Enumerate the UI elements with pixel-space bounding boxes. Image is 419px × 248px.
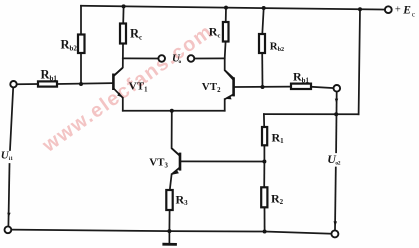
wire Uo right segment: [194, 57, 224, 59]
wire left input vertical lower: [8, 164, 9, 226]
resistor Rb2 left body: [78, 35, 85, 54]
wire left Rb2 branch vertical top: [80, 6, 82, 35]
wire VT1 emitter down: [122, 98, 124, 111]
wire bottom ground rail: [11, 230, 331, 234]
wire R1 bottom to divider node: [263, 145, 265, 161]
terminal Uo2 top: [334, 85, 341, 92]
resistor Rc2 body: [223, 22, 229, 42]
terminal Uo2 bottom: [331, 230, 338, 237]
wire Rc2 bottom to VT2 collector: [225, 42, 233, 78]
resistor Rb1 right body: [291, 84, 311, 89]
resistor R2 body: [261, 187, 267, 207]
terminal input top left: [10, 81, 16, 87]
terminal Uo left: [158, 55, 165, 62]
node ground rail at R3: [167, 229, 171, 233]
arrow input wire down: [7, 213, 10, 218]
wire right Rb2 branch from rail: [262, 8, 263, 34]
wire top supply rail: [81, 6, 388, 10]
node top rail at Rc1: [122, 4, 126, 8]
wire VT3 emitter down to R3: [170, 174, 172, 190]
node ground rail at R2: [263, 230, 267, 234]
node top rail at right Rb2: [262, 6, 266, 10]
resistor Rc1 body: [120, 24, 126, 44]
node emitter rail to VT3: [170, 109, 174, 113]
wire VT3 collector from emitter rail: [172, 111, 180, 156]
svg-text:E: E: [402, 5, 411, 17]
wire R2 bottom to ground rail: [264, 207, 266, 231]
wire left input vertical upper: [10, 87, 13, 150]
node top rail at Rc2: [224, 6, 228, 10]
wire VT2 emitter down: [224, 99, 226, 111]
wire right Rb1 to output terminal: [311, 87, 334, 88]
ground: [162, 231, 177, 244]
wire divider node to R2 top: [263, 162, 265, 188]
wire output Uo2 vertical lower: [334, 168, 337, 231]
wire VT2 base to right Rb1: [235, 86, 291, 88]
transistor VT2: [225, 70, 234, 99]
node R1-R2 divider: [262, 160, 266, 164]
terminal +Ec: [385, 6, 392, 13]
wire R3 bottom to ground rail: [168, 210, 170, 231]
wire horizontal feed to R1: [264, 113, 359, 115]
terminal input bottom left: [5, 226, 12, 233]
node VT2 base / right Rb2: [261, 85, 265, 89]
node Uo2 wire crossing: [334, 112, 338, 116]
resistor Rb1 left body: [38, 81, 57, 86]
resistor Rb2 right body: [259, 34, 265, 53]
arrow VT3 emitter: [172, 170, 179, 175]
arrow Uo2 bottom wire: [334, 221, 338, 226]
wire divider node to VT3 base: [181, 160, 264, 162]
wire down to R1 top: [263, 114, 265, 127]
wire Rb1 to VT1 base: [57, 82, 112, 85]
arrow Uo2 top wire: [335, 99, 338, 104]
node VT1 base / left Rb2: [79, 82, 83, 86]
wire right Rb2 bottom to VT2 base node: [261, 53, 263, 87]
arrow VT2 emitter: [226, 96, 232, 100]
wire common emitter rail: [123, 110, 225, 112]
wire left Rb2 bottom to base node: [80, 53, 82, 84]
wire output Uo2 vertical upper: [335, 92, 338, 153]
svg-text:+: +: [395, 4, 401, 15]
wire Rc1 branch from rail: [122, 6, 124, 23]
transistor VT1: [113, 68, 122, 98]
resistor R1 body: [262, 127, 267, 145]
wire Uo left segment: [123, 57, 159, 59]
resistor R3 body: [166, 190, 172, 210]
watermark www.elecfans.com: [38, 20, 218, 157]
transistor VT3: [172, 148, 180, 174]
wire Rc2 branch from rail: [225, 8, 227, 22]
wire Rc1 bottom to VT1 collector: [114, 44, 123, 76]
terminal Uo right: [188, 55, 195, 62]
wire input terminal to Rb1: [17, 83, 38, 85]
wire +Ec branch down right side: [359, 9, 360, 114]
node top rail at +Ec branch: [358, 7, 362, 11]
arrow VT1 emitter: [117, 93, 122, 98]
